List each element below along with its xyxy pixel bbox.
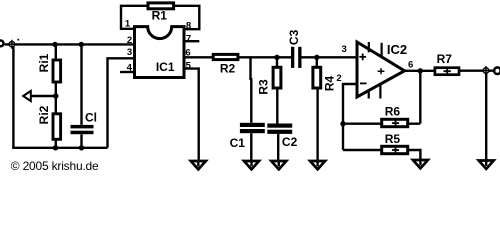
wire R6 leads <box>343 122 420 124</box>
capacitor C1 plates <box>240 123 265 133</box>
wire R3 leads <box>277 57 278 165</box>
wire R7 to output <box>459 69 495 71</box>
ground output <box>479 161 494 169</box>
resistor R7 plus mark <box>444 69 451 74</box>
svg-text:Ri1: Ri1 <box>37 53 51 72</box>
node junction rail Cl <box>79 145 84 150</box>
ground pin5 <box>191 161 206 169</box>
node junction R5 R6 <box>340 121 345 126</box>
svg-text:R4: R4 <box>322 76 336 92</box>
wire IC1 pin 8 to R1 <box>173 6 199 29</box>
svg-text:8: 8 <box>186 21 191 32</box>
wire left vertical <box>12 44 14 147</box>
node junction R4 <box>314 55 319 60</box>
node junction R3 <box>274 55 279 60</box>
svg-text:R6: R6 <box>385 104 401 118</box>
resistor R7 <box>435 68 459 75</box>
wire R5 leads <box>343 150 420 161</box>
wire input to IC1 pin 2 <box>5 43 134 45</box>
resistor R3 <box>273 67 281 88</box>
wire output ground riser <box>485 73 487 165</box>
resistor R5 <box>382 146 408 153</box>
svg-text:6: 6 <box>185 47 190 58</box>
stray dot node <box>17 39 19 41</box>
input terminal circle <box>0 41 4 47</box>
op-amp power pin tick top right <box>381 43 383 57</box>
svg-text:R2: R2 <box>220 62 236 76</box>
ground R5 <box>413 160 428 168</box>
input connector cross-circle <box>7 40 16 49</box>
svg-text:C3: C3 <box>287 29 301 45</box>
wire op-amp pin 2 feedback <box>343 84 358 150</box>
wire Ri2 leads <box>55 96 57 148</box>
node junction top Ri1 <box>52 42 57 47</box>
node junction rail Ri2 <box>53 145 58 150</box>
wire wiper arm <box>30 95 56 97</box>
output connector cross-circle <box>481 66 490 75</box>
wire C1 riser <box>249 57 252 165</box>
wire op-amp output to R7 <box>404 70 435 72</box>
wire R2 to C3 <box>238 56 292 58</box>
svg-text:R3: R3 <box>257 79 271 95</box>
wire IC1 pin 6 to R2 <box>184 56 212 58</box>
op-amp plus input symbol <box>359 54 366 61</box>
IC1 body with notch <box>135 27 185 78</box>
wire Cl leads <box>80 44 82 147</box>
svg-text:4: 4 <box>127 63 133 74</box>
resistor Ri1 <box>53 60 61 82</box>
op-amp power pin tick bottom left <box>368 90 370 99</box>
svg-text:5: 5 <box>186 60 192 71</box>
node junction feedback tap <box>418 68 423 73</box>
wire R4 leads <box>316 57 319 165</box>
wire IC1 pin 1 to R1 <box>121 6 148 29</box>
capacitor Cl plates <box>71 125 94 134</box>
svg-text:R7: R7 <box>437 52 453 66</box>
wire C3 to op-amp pin 3 <box>301 56 358 58</box>
svg-text:C1: C1 <box>230 136 246 150</box>
wire IC1 pin 7 stub <box>185 40 200 42</box>
svg-text:IC1: IC1 <box>156 60 175 74</box>
svg-text:1: 1 <box>125 19 131 30</box>
svg-text:2: 2 <box>336 73 341 84</box>
resistor R5 plus mark <box>392 148 399 153</box>
ground C1 <box>244 161 259 169</box>
op-amp IC2 triangle <box>357 42 405 97</box>
wire IC1 pin 5 to ground <box>184 69 199 166</box>
resistor R2 <box>213 54 238 59</box>
svg-text:3: 3 <box>127 47 132 58</box>
svg-text:7: 7 <box>186 34 191 45</box>
resistor R4 <box>313 67 321 88</box>
svg-text:6: 6 <box>408 60 413 71</box>
svg-text:Cl: Cl <box>85 110 97 124</box>
output terminal circle <box>494 67 500 74</box>
svg-text:R1: R1 <box>152 9 168 23</box>
op-amp minus input symbol <box>360 82 367 84</box>
op-amp power pin tick top V+ <box>368 42 370 52</box>
resistor R6 <box>382 119 408 126</box>
svg-text:C2: C2 <box>282 135 298 149</box>
wire IC1 pin 4 stub <box>120 71 134 73</box>
svg-text:IC2: IC2 <box>387 42 407 57</box>
wiper arrow <box>23 91 31 101</box>
op-amp supply plus symbol <box>378 68 385 74</box>
capacitor C3 plates <box>291 47 302 68</box>
resistor R6 plus mark <box>392 121 399 126</box>
resistor Ri2 <box>53 114 61 140</box>
svg-text:R5: R5 <box>385 132 401 146</box>
wire bottom rail <box>12 147 107 149</box>
wire Ri1 leads <box>55 44 57 96</box>
wire IC1 pin 3 to rail <box>108 58 135 148</box>
svg-text:© 2005 krishu.de: © 2005 krishu.de <box>11 159 99 171</box>
resistor R1 <box>148 3 174 9</box>
svg-text:2: 2 <box>127 35 132 46</box>
node junction wiper <box>53 93 58 98</box>
wire feedback riser <box>419 71 421 124</box>
ground C2 <box>271 161 286 169</box>
op-amp power pin tick bottom right <box>379 84 381 98</box>
capacitor C2 plates <box>267 124 292 134</box>
svg-text:3: 3 <box>342 44 347 55</box>
node junction top Cl <box>79 42 84 47</box>
ground R4 <box>310 161 325 169</box>
svg-text:Ri2: Ri2 <box>37 105 51 124</box>
